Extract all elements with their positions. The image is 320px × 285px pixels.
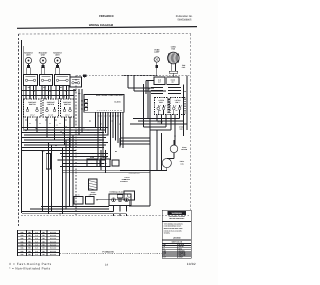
svg-text:5995388805: 5995388805: [178, 18, 193, 21]
svg-text:R: R: [39, 123, 40, 125]
svg-text:R: R: [59, 123, 60, 125]
svg-text:SW 2: SW 2: [175, 101, 179, 104]
svg-text:R: R: [29, 123, 30, 125]
svg-text:TERMINAL BLOCK: TERMINAL BLOCK: [109, 191, 125, 194]
svg-text:L1 L2: L1 L2: [30, 114, 34, 117]
svg-text:L1 L2: L1 L2: [65, 114, 69, 117]
svg-text:10/02: 10/02: [187, 262, 196, 266]
svg-text:CLOCK: CLOCK: [114, 100, 121, 103]
svg-text:BU: BU: [115, 151, 117, 153]
svg-text:OR: OR: [184, 91, 186, 93]
svg-text:L1 L2: L1 L2: [49, 114, 53, 117]
svg-text:R: R: [49, 123, 50, 125]
svg-text:FEFL89CC: FEFL89CC: [99, 14, 115, 18]
svg-text:ELECTRONIC OVEN CONTROL: ELECTRONIC OVEN CONTROL: [96, 94, 124, 97]
svg-text:* = Non-Illustrated Parts: * = Non-Illustrated Parts: [9, 267, 50, 271]
svg-text:GY: GY: [119, 124, 121, 126]
svg-text:SWITCH: SWITCH: [47, 103, 54, 106]
svg-text:P-#331D-05: P-#331D-05: [102, 251, 114, 254]
svg-text:SWITCH: SWITCH: [29, 103, 36, 106]
svg-text:NO: NO: [159, 110, 161, 112]
svg-text:WARNING: WARNING: [172, 212, 183, 215]
svg-text:LEGEND: LEGEND: [173, 236, 181, 239]
svg-text:NC: NC: [176, 110, 178, 112]
svg-text:WIRING DIAGRAM: WIRING DIAGRAM: [89, 24, 114, 27]
svg-text:SWITCH: SWITCH: [64, 103, 71, 106]
svg-text:SW 1: SW 1: [159, 101, 163, 104]
svg-text:1 2 3 4 5 6 7 8 9 10 11 12: 1 2 3 4 5 6 7 8 9 10 11 12: [97, 110, 122, 112]
svg-text:LAMP: LAMP: [154, 51, 160, 54]
